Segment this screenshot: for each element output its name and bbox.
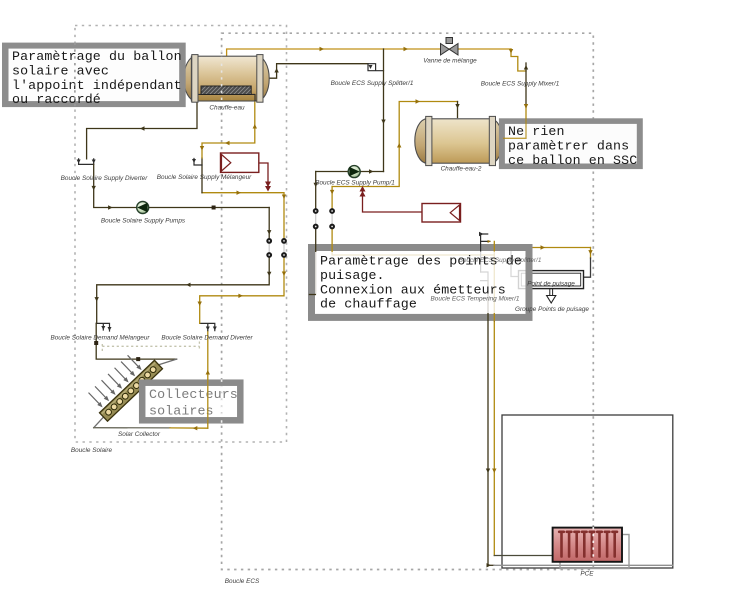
pump 1	[137, 202, 149, 214]
svg-text:Boucle ECS Supply Splitter/1: Boucle ECS Supply Splitter/1	[331, 80, 414, 87]
radiator with shadow	[553, 528, 629, 569]
solar collector	[84, 344, 162, 421]
svg-text:Boucle Solaire Demand Diverter: Boucle Solaire Demand Diverter	[161, 335, 253, 342]
point de puisage	[519, 271, 584, 303]
dark from mixer down to tank2	[525, 63, 527, 107]
note box 1	[2, 43, 186, 108]
note box 3	[312, 248, 530, 318]
svg-text:puisage.: puisage.	[320, 268, 385, 283]
wire down to dots left pair	[268, 208, 270, 241]
boundary Boucle ECS (dashed)	[222, 33, 594, 569]
connector dots	[266, 208, 335, 258]
tank 2 Chauffe-eau-2	[415, 116, 503, 165]
tempering step	[481, 272, 488, 281]
mixer steps Boucle ECS Supply Mixer	[511, 49, 526, 71]
splitter icon box	[368, 64, 384, 71]
valve Vanne de melange	[441, 38, 459, 56]
gold dots to corner 192	[202, 193, 284, 241]
svg-text:Boucle ECS Supply Pump/1: Boucle ECS Supply Pump/1	[315, 180, 395, 187]
dark vertical to pump2	[383, 49, 385, 172]
boundary Boucle Solaire (dashed)	[75, 26, 287, 443]
note box 4	[142, 383, 240, 421]
small italic labels	[50, 58, 594, 586]
svg-text:ce ballon en SSC: ce ballon en SSC	[508, 153, 637, 168]
gold tank1 top to valve to mixer	[227, 49, 511, 56]
gold trunk down right	[493, 241, 495, 555]
maroon wire rect1 to gold	[259, 163, 268, 187]
svg-text:Chauffe-eau: Chauffe-eau	[209, 105, 245, 112]
maroon rect component 2 (ECS)	[360, 186, 461, 222]
svg-text:Chauffe-eau-2: Chauffe-eau-2	[441, 166, 482, 173]
svg-text:l'appoint indépendant: l'appoint indépendant	[12, 78, 182, 93]
wire arrows	[92, 47, 593, 568]
dark tank1 right to splitter	[269, 64, 368, 78]
gray strut top	[159, 359, 177, 365]
wire dark down-left to demand melangeur	[97, 255, 270, 323]
gold from corner 399	[332, 102, 457, 187]
gold down to dots B	[331, 187, 333, 212]
gold collector return up	[207, 331, 209, 428]
svg-text:Boucle Solaire Supply Mélangeu: Boucle Solaire Supply Mélangeur	[157, 174, 252, 181]
note box 2	[499, 118, 643, 169]
svg-text:Boucle ECS Tempering Mixer/1: Boucle ECS Tempering Mixer/1	[431, 296, 520, 303]
pump 2	[348, 166, 360, 178]
pump2 line	[316, 171, 384, 173]
svg-text:Groupe Points de puisage: Groupe Points de puisage	[515, 306, 589, 313]
gold to point de puisage	[494, 247, 590, 249]
svg-text:solaire avec: solaire avec	[12, 63, 109, 78]
wire tank1 bottom-left down	[87, 101, 197, 159]
dark down to dots B	[315, 172, 317, 212]
svg-text:Ne rien: Ne rien	[508, 124, 565, 139]
svg-text:Boucle ECS: Boucle ECS	[225, 578, 260, 585]
collector dashed bracket	[102, 342, 199, 352]
svg-text:Boucle Solaire Demand Mélangeu: Boucle Solaire Demand Mélangeur	[50, 335, 150, 342]
svg-text:de chauffage: de chauffage	[320, 297, 417, 312]
svg-text:PCE: PCE	[580, 571, 594, 578]
mixer icon Boucle Solaire Supply Melangeur	[194, 159, 202, 166]
svg-text:Boucle ECS Supply Splitter/1: Boucle ECS Supply Splitter/1	[459, 257, 542, 264]
collector base line	[94, 427, 170, 429]
melangeur icon Boucle Solaire Demand Melangeur	[96, 323, 109, 331]
dashes redrawn over notes/components	[75, 43, 593, 568]
junction square	[94, 341, 98, 345]
svg-text:Boucle Solaire Supply Diverter: Boucle Solaire Supply Diverter	[61, 175, 149, 182]
gold up to corner	[200, 255, 284, 323]
vertical to mixer1	[201, 158, 203, 193]
svg-text:paramètrer dans: paramètrer dans	[508, 138, 629, 153]
svg-text:Collecteurs: Collecteurs	[149, 387, 238, 402]
ECS demand splitter hooks	[481, 234, 490, 272]
left feed of puisage	[511, 250, 519, 277]
diverter icon Boucle Solaire Supply Diverter	[79, 159, 94, 165]
svg-text:Boucle Solaire Supply Pumps: Boucle Solaire Supply Pumps	[101, 218, 186, 225]
svg-text:Point de puisage: Point de puisage	[527, 281, 575, 288]
maroon from gold 186 down to rect2	[363, 191, 423, 212]
wire stubs over borders	[208, 118, 526, 424]
svg-text:Paramètrage du ballon: Paramètrage du ballon	[12, 49, 182, 64]
PCE solid box	[502, 415, 673, 568]
gray strut bottom	[94, 417, 104, 428]
svg-text:solaires: solaires	[149, 404, 214, 419]
svg-text:Solar Collector: Solar Collector	[118, 431, 161, 438]
svg-text:Boucle ECS Supply Mixer/1: Boucle ECS Supply Mixer/1	[481, 81, 560, 88]
maroon rect component 1 (solar)	[221, 153, 272, 192]
svg-text:ou raccordé: ou raccordé	[12, 92, 101, 107]
wire to collector top	[96, 323, 176, 359]
tank 1 Chauffe-eau	[184, 55, 269, 103]
svg-text:Vanne de mélange: Vanne de mélange	[423, 58, 477, 65]
svg-text:Boucle Solaire: Boucle Solaire	[71, 447, 113, 454]
wire diverter to pump1	[94, 164, 270, 207]
diverter icon Boucle Solaire Demand Diverter	[200, 323, 215, 330]
